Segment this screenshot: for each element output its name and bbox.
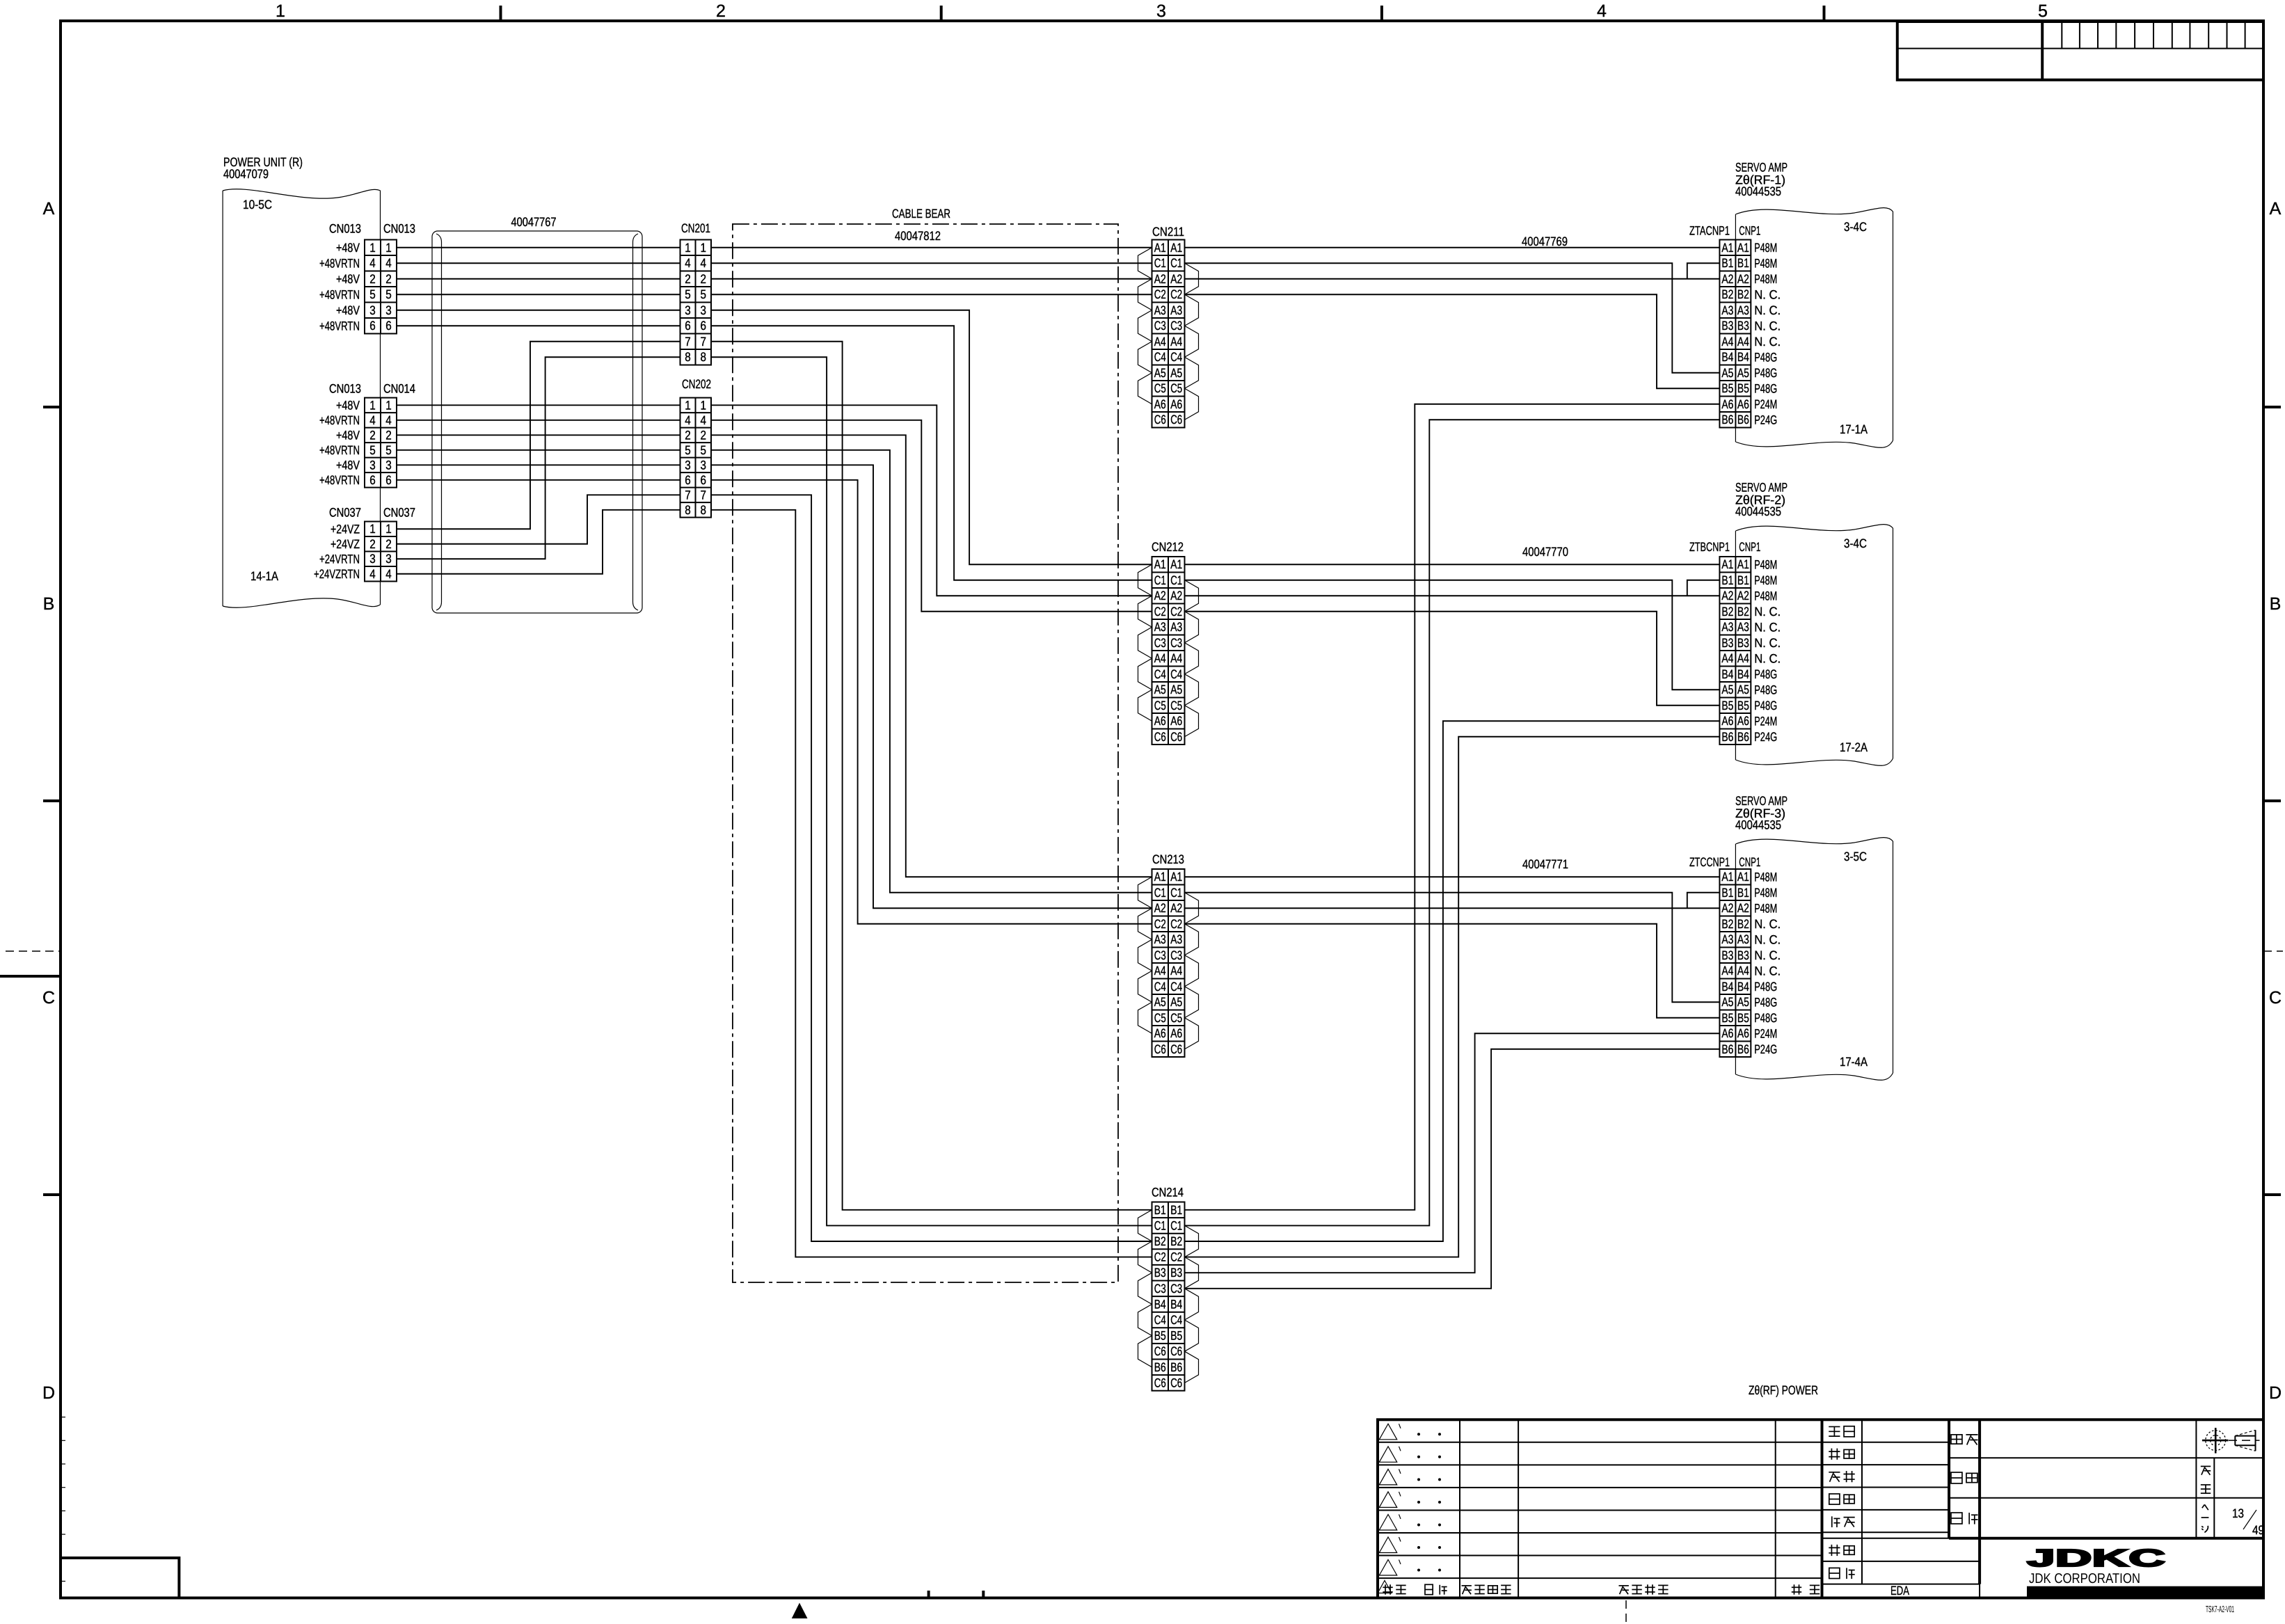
wire CN202-8 to CN214 C2: [711, 510, 1152, 1257]
svg-text:4: 4: [385, 413, 392, 427]
svg-text:4: 4: [685, 413, 691, 427]
svg-text:C3: C3: [1154, 1282, 1166, 1296]
svg-text:A4: A4: [1154, 335, 1166, 349]
svg-text:+24VRTN: +24VRTN: [319, 552, 360, 566]
svg-text:4: 4: [385, 567, 392, 581]
svg-text:B5: B5: [1721, 1011, 1733, 1025]
wire CN212 C2 to ZTBCNP1 B5: [1185, 612, 1720, 706]
svg-text:10-5C: 10-5C: [243, 198, 272, 212]
wire CN013-4 to CN201-4: [397, 262, 680, 264]
svg-text:A6: A6: [1154, 1026, 1166, 1040]
svg-text:A6: A6: [1154, 714, 1166, 728]
svg-text:B3: B3: [1721, 319, 1733, 333]
svg-text:CN013: CN013: [329, 382, 361, 396]
svg-text:B6: B6: [1737, 1042, 1749, 1056]
svg-text:A3: A3: [1721, 932, 1733, 946]
svg-text:3: 3: [369, 458, 376, 472]
svg-text:C1: C1: [1154, 1218, 1166, 1232]
header ZTCCNP1 CNP1: [1689, 855, 1760, 869]
svg-text:1: 1: [685, 398, 691, 412]
svg-text:CN213: CN213: [1152, 852, 1184, 866]
svg-text:1: 1: [701, 398, 707, 412]
svg-text:B4: B4: [1721, 350, 1733, 364]
svg-text:B2: B2: [1170, 1234, 1182, 1248]
zone ticks bottom border: [929, 1591, 984, 1598]
svg-text:A5: A5: [1170, 683, 1182, 696]
svg-text:6: 6: [369, 473, 376, 487]
svg-text:B: B: [43, 594, 55, 614]
svg-text:P48M: P48M: [1754, 573, 1777, 587]
svg-text:3: 3: [385, 303, 392, 317]
svg-text:B6: B6: [1170, 1360, 1182, 1374]
svg-text:B1: B1: [1154, 1203, 1166, 1217]
zone letters left: [42, 199, 55, 1403]
svg-text:40047079: 40047079: [223, 167, 269, 181]
svg-text:4: 4: [701, 413, 707, 427]
svg-text:4: 4: [369, 567, 376, 581]
svg-text:A2: A2: [1154, 589, 1166, 603]
svg-text:8: 8: [701, 350, 707, 364]
svg-text:4: 4: [369, 413, 376, 427]
svg-text:SERVO AMP: SERVO AMP: [1735, 794, 1788, 808]
svg-text:N. C.: N. C.: [1754, 651, 1781, 665]
wire CN201-7 to CN214 B1: [711, 342, 1152, 1210]
svg-text:A6: A6: [1154, 397, 1166, 411]
wire CN202-5 to CN213 C1: [711, 450, 1152, 893]
label SERVO AMP RF-2: [1735, 481, 1788, 519]
svg-text:2: 2: [385, 537, 392, 551]
svg-text:40044535: 40044535: [1735, 184, 1781, 198]
label SERVO AMP RF-3: [1735, 794, 1788, 832]
wire branch to ZTBCNP1 B1: [1687, 580, 1720, 596]
svg-text:A5: A5: [1737, 366, 1749, 380]
svg-text:3-4C: 3-4C: [1844, 220, 1867, 234]
svg-text:SERVO AMP: SERVO AMP: [1735, 481, 1788, 495]
svg-text:CN014: CN014: [383, 382, 415, 396]
svg-text:A1: A1: [1170, 557, 1182, 571]
approval table: [1822, 1419, 1980, 1584]
svg-text:B3: B3: [1737, 948, 1749, 962]
wire CN213 A2 to ZTCCNP1 A2: [1185, 907, 1720, 909]
svg-text:B1: B1: [1721, 573, 1733, 587]
connector CN013/CN014 table: [365, 398, 397, 488]
svg-text:C3: C3: [1154, 948, 1166, 962]
svg-text:5: 5: [2038, 1, 2048, 21]
svg-text:5: 5: [685, 287, 691, 301]
svg-text:C: C: [2269, 988, 2282, 1008]
wire CN214 C3 to ZTCCNP1 B6: [1185, 1049, 1720, 1289]
connector ZTBCNP1 table: [1719, 557, 1751, 745]
svg-text:P48M: P48M: [1754, 901, 1777, 915]
svg-text:A6: A6: [1170, 397, 1182, 411]
svg-text:P24G: P24G: [1754, 1042, 1777, 1056]
svg-text:A4: A4: [1737, 964, 1749, 978]
wire CN211 C2 to ZTACNP1 B5: [1185, 294, 1720, 388]
JDKC logo: [2027, 1545, 2263, 1598]
svg-text:B1: B1: [1737, 573, 1749, 587]
svg-text:A1: A1: [1170, 241, 1182, 255]
svg-text:B5: B5: [1737, 381, 1749, 395]
connector CN202 table: [680, 398, 712, 518]
svg-text:A3: A3: [1154, 303, 1166, 317]
svg-text:P48M: P48M: [1754, 256, 1777, 270]
svg-text:ZTCCNP1: ZTCCNP1: [1689, 855, 1730, 869]
svg-text:3: 3: [1156, 1, 1166, 21]
svg-text:C3: C3: [1154, 636, 1166, 650]
svg-text:A4: A4: [1154, 964, 1166, 978]
twisted-pair marks CN211: [1138, 248, 1199, 420]
svg-text:B6: B6: [1721, 1042, 1733, 1056]
servo amp RF-1 enclosure: [1735, 208, 1893, 448]
svg-text:N. C.: N. C.: [1754, 932, 1781, 946]
svg-text:TSK7-A2-V01: TSK7-A2-V01: [2206, 1604, 2234, 1614]
svg-text:C4: C4: [1154, 980, 1166, 994]
cable bear enclosure (dash-dot): [733, 224, 1118, 1282]
svg-text:B6: B6: [1737, 730, 1749, 744]
signal labels CNP1 RF-1: [1754, 241, 1781, 427]
svg-text:A2: A2: [1154, 901, 1166, 915]
wire CN014-3 to CN202-3: [397, 464, 680, 465]
svg-text:8: 8: [685, 350, 691, 364]
wire CN201-5 to CN211 C2: [711, 294, 1152, 295]
svg-text:C6: C6: [1154, 1344, 1166, 1358]
svg-text:CABLE BEAR: CABLE BEAR: [892, 207, 950, 221]
svg-text:B2: B2: [1737, 605, 1749, 619]
revision triangles: [1379, 1424, 1401, 1575]
svg-text:A2: A2: [1170, 272, 1182, 286]
svg-text:B1: B1: [1737, 256, 1749, 270]
svg-text:A4: A4: [1737, 335, 1749, 349]
svg-text:B2: B2: [1721, 917, 1733, 931]
svg-text:C2: C2: [1170, 287, 1182, 301]
svg-text:B3: B3: [1170, 1266, 1182, 1280]
svg-text:CNP1: CNP1: [1739, 224, 1760, 238]
svg-text:3: 3: [701, 303, 707, 317]
third angle projection symbol: [2202, 1428, 2229, 1454]
svg-text:A2: A2: [1721, 272, 1733, 286]
svg-text:B5: B5: [1737, 1011, 1749, 1025]
pin labels CN013 +48V: [319, 241, 360, 333]
svg-text:C5: C5: [1154, 699, 1166, 713]
svg-text:3-5C: 3-5C: [1844, 850, 1867, 863]
wire CN201-1 to CN211 A1: [711, 247, 1152, 248]
wire CN014-4 to CN202-4: [397, 420, 680, 421]
svg-text:N. C.: N. C.: [1754, 948, 1781, 962]
svg-text:P48G: P48G: [1754, 699, 1777, 713]
svg-text:P24G: P24G: [1754, 413, 1777, 427]
wire CN201-6 to CN212 C1: [711, 326, 1152, 580]
svg-text:+48V: +48V: [336, 428, 360, 442]
svg-text:A2: A2: [1721, 901, 1733, 915]
svg-text:CN013: CN013: [383, 222, 415, 236]
svg-text:C2: C2: [1154, 1250, 1166, 1264]
svg-text:C1: C1: [1170, 886, 1182, 900]
wire CN212 C1 to ZTBCNP1 A5: [1185, 580, 1720, 690]
svg-text:A5: A5: [1170, 366, 1182, 380]
page number 13/49: [2232, 1506, 2264, 1537]
svg-text:40047770: 40047770: [1522, 545, 1568, 559]
wire CN211 A1 to ZTACNP1 A1: [1185, 247, 1720, 248]
svg-text:CN201: CN201: [681, 221, 710, 235]
svg-text:B5: B5: [1721, 699, 1733, 713]
svg-text:CNP1: CNP1: [1739, 540, 1760, 554]
zone ticks left border: [43, 407, 61, 1195]
svg-text:A2: A2: [1737, 272, 1749, 286]
svg-text:+48VRTN: +48VRTN: [319, 256, 360, 270]
wire CN014-2 to CN202-2: [397, 434, 680, 436]
svg-text:A1: A1: [1721, 241, 1733, 255]
svg-text:C4: C4: [1170, 350, 1182, 364]
svg-text:6: 6: [385, 473, 392, 487]
svg-text:P48M: P48M: [1754, 589, 1777, 603]
svg-text:EDA: EDA: [1890, 1584, 1909, 1598]
svg-text:P24M: P24M: [1754, 397, 1777, 411]
pin labels CN037 +24V: [314, 522, 360, 581]
connector CN211 table: [1152, 240, 1185, 428]
svg-text:B3: B3: [1737, 636, 1749, 650]
wire CN013-6 to CN201-6: [397, 325, 680, 326]
svg-text:14-1A: 14-1A: [250, 569, 278, 583]
svg-text:B4: B4: [1154, 1297, 1166, 1311]
header ZTACNP1 CNP1: [1689, 224, 1760, 238]
svg-text:A3: A3: [1737, 303, 1749, 317]
wire CN037-1 to CN201-7: [397, 342, 680, 530]
svg-text:A5: A5: [1721, 366, 1733, 380]
projection cone symbol: [2229, 1430, 2260, 1451]
svg-text:P48M: P48M: [1754, 272, 1777, 286]
svg-text:N. C.: N. C.: [1754, 287, 1781, 301]
left border minor ticks: [61, 1417, 65, 1582]
svg-text:C5: C5: [1154, 381, 1166, 395]
svg-text:C6: C6: [1170, 730, 1182, 744]
svg-text:2: 2: [369, 428, 376, 442]
svg-text:A3: A3: [1721, 620, 1733, 634]
svg-text:6: 6: [385, 319, 392, 333]
svg-text:1: 1: [369, 398, 376, 412]
revision history table: [1378, 1419, 1822, 1598]
connector CN213 table: [1152, 869, 1185, 1057]
svg-text:3: 3: [385, 458, 392, 472]
svg-text:A6: A6: [1721, 397, 1733, 411]
wire CN201-8 to CN214 C1: [711, 357, 1152, 1225]
svg-text:3: 3: [385, 552, 392, 566]
svg-text:C6: C6: [1154, 730, 1166, 744]
svg-text:P48M: P48M: [1754, 870, 1777, 884]
connector CN212 table: [1152, 557, 1185, 745]
svg-text:A4: A4: [1721, 335, 1733, 349]
svg-text:+48V: +48V: [336, 272, 360, 286]
svg-text:N. C.: N. C.: [1754, 620, 1781, 634]
svg-text:A: A: [43, 199, 55, 218]
svg-text:3: 3: [369, 552, 376, 566]
svg-text:B3: B3: [1737, 319, 1749, 333]
servo amp RF-3 enclosure: [1735, 838, 1893, 1081]
svg-text:B2: B2: [1154, 1234, 1166, 1248]
svg-text:1: 1: [385, 241, 392, 255]
signal labels CNP1 RF-2: [1754, 557, 1781, 744]
zone letters right: [2269, 199, 2282, 1403]
svg-text:C4: C4: [1170, 980, 1182, 994]
svg-text:2: 2: [685, 428, 691, 442]
svg-text:CN214: CN214: [1152, 1186, 1184, 1200]
wire CN013-2 to CN201-2: [397, 278, 680, 280]
svg-text:B2: B2: [1737, 287, 1749, 301]
wire CN013-3 to CN201-3: [397, 310, 680, 311]
connector ZTACNP1 table: [1719, 240, 1751, 428]
svg-text:+48VRTN: +48VRTN: [319, 319, 360, 333]
svg-text:P48G: P48G: [1754, 995, 1777, 1009]
svg-text:+24VZ: +24VZ: [331, 522, 360, 536]
svg-text:C3: C3: [1170, 1282, 1182, 1296]
svg-text:A6: A6: [1170, 1026, 1182, 1040]
svg-text:2: 2: [385, 272, 392, 286]
wire CN014-5 to CN202-5: [397, 449, 680, 451]
servo amp RF-2 enclosure: [1735, 525, 1893, 766]
svg-text:A4: A4: [1154, 651, 1166, 665]
svg-text:A3: A3: [1170, 932, 1182, 946]
svg-text:N. C.: N. C.: [1754, 303, 1781, 317]
svg-text:B4: B4: [1170, 1297, 1182, 1311]
svg-text:3: 3: [369, 303, 376, 317]
svg-text:B4: B4: [1721, 667, 1733, 681]
svg-text:B: B: [2270, 594, 2282, 614]
title block outline: [1378, 1419, 2263, 1598]
wire CN214 B2 to ZTBCNP1 A6: [1185, 721, 1720, 1241]
svg-text:CN037: CN037: [329, 506, 361, 520]
wire CN214 B1 to ZTACNP1 A6: [1185, 404, 1720, 1210]
svg-text:N. C.: N. C.: [1754, 917, 1781, 931]
twisted-pair marks CN212: [1138, 564, 1199, 737]
svg-text:A2: A2: [1154, 272, 1166, 286]
svg-text:C6: C6: [1170, 413, 1182, 427]
zone ticks top border: [501, 6, 1824, 21]
header CN013 CN014: [329, 382, 415, 396]
svg-text:C1: C1: [1170, 256, 1182, 270]
svg-text:17-4A: 17-4A: [1840, 1055, 1868, 1069]
svg-text:B3: B3: [1721, 636, 1733, 650]
wire CN013-1 to CN201-1: [397, 247, 680, 248]
svg-text:A3: A3: [1737, 620, 1749, 634]
svg-text:P48M: P48M: [1754, 557, 1777, 571]
wire CN211 A2 to ZTACNP1 A2: [1185, 278, 1720, 280]
svg-text:40044535: 40044535: [1735, 504, 1781, 518]
svg-text:40047769: 40047769: [1522, 234, 1568, 248]
wire CN037-3 to CN201-8: [397, 357, 680, 559]
svg-text:1: 1: [369, 522, 376, 536]
wire CN213 A1 to ZTCCNP1 A1: [1185, 876, 1720, 877]
svg-text:C2: C2: [1170, 917, 1182, 931]
svg-text:C1: C1: [1154, 573, 1166, 587]
svg-text:N. C.: N. C.: [1754, 636, 1781, 650]
left margin heavy mark: [0, 975, 61, 978]
svg-text:B4: B4: [1721, 980, 1733, 994]
svg-text:N. C.: N. C.: [1754, 605, 1781, 619]
svg-text:A1: A1: [1737, 241, 1749, 255]
svg-text:A6: A6: [1737, 1026, 1749, 1040]
svg-text:A1: A1: [1154, 241, 1166, 255]
svg-text:CN202: CN202: [682, 377, 711, 391]
svg-text:C3: C3: [1170, 319, 1182, 333]
svg-text:5: 5: [701, 443, 707, 457]
svg-text:13: 13: [2232, 1506, 2244, 1520]
svg-text:C5: C5: [1170, 1011, 1182, 1025]
svg-text:C2: C2: [1170, 1250, 1182, 1264]
svg-text:C1: C1: [1170, 1218, 1182, 1232]
svg-text:A5: A5: [1721, 995, 1733, 1009]
svg-text:P48G: P48G: [1754, 381, 1777, 395]
svg-text:B5: B5: [1721, 381, 1733, 395]
wire branch to ZTCCNP1 B1: [1687, 893, 1720, 909]
svg-text:1: 1: [701, 241, 707, 255]
wire CN214 C1 to ZTACNP1 B6: [1185, 420, 1720, 1225]
svg-text:JDK CORPORATION: JDK CORPORATION: [2029, 1571, 2140, 1586]
svg-text:A1: A1: [1721, 557, 1733, 571]
svg-text:C4: C4: [1170, 1313, 1182, 1327]
svg-text:B4: B4: [1737, 667, 1749, 681]
connector CN201 table: [680, 240, 712, 365]
svg-text:3: 3: [701, 458, 707, 472]
svg-text:7: 7: [685, 488, 691, 502]
fold mark dashes right: [2263, 950, 2283, 952]
svg-text:+48V: +48V: [336, 241, 360, 255]
svg-text:A5: A5: [1170, 995, 1182, 1009]
svg-text:6: 6: [369, 319, 376, 333]
svg-text:P48M: P48M: [1754, 241, 1777, 255]
svg-text:A4: A4: [1721, 651, 1733, 665]
revision header labels: [1383, 1584, 1820, 1594]
svg-text:P24M: P24M: [1754, 714, 1777, 728]
power unit (R) enclosure box: [223, 189, 380, 607]
svg-text:2: 2: [369, 272, 376, 286]
svg-text:B4: B4: [1737, 350, 1749, 364]
wire CN037-2 to CN202-7: [397, 495, 680, 543]
svg-text:P48G: P48G: [1754, 350, 1777, 364]
svg-text:A6: A6: [1170, 714, 1182, 728]
svg-text:A1: A1: [1154, 557, 1166, 571]
label part number 品番: [1951, 1472, 1962, 1483]
svg-text:A1: A1: [1154, 870, 1166, 884]
wire CN213 C1 to ZTCCNP1 A5: [1185, 893, 1720, 1003]
svg-text:D: D: [2269, 1383, 2282, 1403]
svg-text:C5: C5: [1170, 381, 1182, 395]
revision strip top-right: [1897, 22, 2263, 80]
part info table: [1949, 1419, 2263, 1598]
svg-text:3: 3: [685, 303, 691, 317]
svg-text:B3: B3: [1721, 948, 1733, 962]
svg-text:4: 4: [1597, 1, 1607, 21]
svg-text:1: 1: [685, 241, 691, 255]
svg-text:A2: A2: [1170, 589, 1182, 603]
svg-text:B5: B5: [1737, 699, 1749, 713]
wire CN214 C2 to ZTBCNP1 B6: [1185, 737, 1720, 1257]
svg-text:A6: A6: [1737, 714, 1749, 728]
svg-text:P24G: P24G: [1754, 730, 1777, 744]
svg-text:CN212: CN212: [1152, 540, 1184, 554]
svg-text:C6: C6: [1154, 1042, 1166, 1056]
header ZTBCNP1 CNP1: [1689, 540, 1760, 554]
svg-text:A6: A6: [1721, 714, 1733, 728]
wire CN202-6 to CN213 C2: [711, 480, 1152, 924]
svg-text:B5: B5: [1170, 1329, 1182, 1343]
signal labels CNP1 RF-3: [1754, 870, 1781, 1056]
svg-text:C: C: [42, 988, 55, 1008]
svg-text:A4: A4: [1170, 651, 1182, 665]
svg-text:P48G: P48G: [1754, 1011, 1777, 1025]
svg-text:N. C.: N. C.: [1754, 335, 1781, 349]
svg-text:D: D: [42, 1383, 55, 1403]
svg-text:P48G: P48G: [1754, 667, 1777, 681]
svg-text:B1: B1: [1737, 886, 1749, 900]
